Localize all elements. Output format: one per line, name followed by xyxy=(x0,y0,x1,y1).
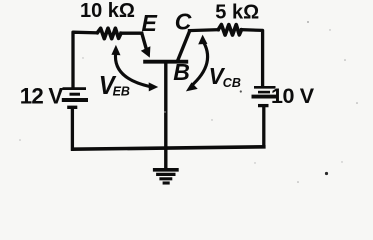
svg-text:B: B xyxy=(173,59,190,85)
svg-text:CB: CB xyxy=(223,76,241,90)
svg-text:10 kΩ: 10 kΩ xyxy=(80,0,135,22)
svg-text:C: C xyxy=(175,8,192,34)
svg-text:10 V: 10 V xyxy=(271,84,315,108)
svg-text:E: E xyxy=(142,10,158,36)
svg-text:5 kΩ: 5 kΩ xyxy=(215,1,259,23)
svg-text:EB: EB xyxy=(113,85,130,99)
svg-text:12 V: 12 V xyxy=(20,83,64,108)
